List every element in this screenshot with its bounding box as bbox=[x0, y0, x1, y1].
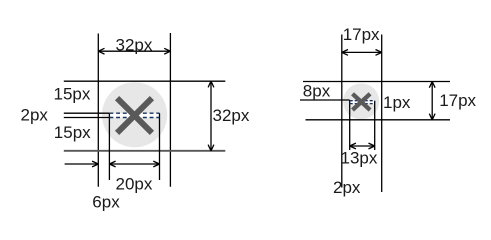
svg-text:32px: 32px bbox=[116, 36, 153, 55]
left box right vertical bbox=[169, 33, 171, 187]
left 32px top dimension arrow bbox=[98, 48, 170, 54]
svg-text:20px: 20px bbox=[116, 175, 153, 194]
left box bottom horizontal bbox=[64, 150, 226, 152]
right box bottom horizontal bbox=[306, 119, 451, 121]
svg-text:32px: 32px bbox=[213, 106, 250, 125]
right 13px bottom dimension arrow bbox=[350, 143, 375, 149]
right icon circle bbox=[343, 83, 379, 119]
right box top horizontal bbox=[303, 81, 450, 83]
svg-text:17px: 17px bbox=[439, 91, 476, 110]
left 6px leader arrow bbox=[65, 161, 99, 167]
right 8px leader line bbox=[300, 99, 350, 101]
svg-text:6px: 6px bbox=[92, 193, 120, 212]
svg-text:2px: 2px bbox=[21, 105, 49, 124]
left box left vertical bbox=[97, 34, 99, 187]
left strip dashed navy lines bbox=[109, 113, 159, 117]
right 17px top dimension arrow bbox=[342, 50, 382, 56]
right box left vertical bbox=[341, 35, 343, 188]
svg-text:1px: 1px bbox=[383, 93, 411, 112]
left strip left vertical extension bbox=[108, 113, 110, 180]
left 20px bottom dimension arrow bbox=[109, 161, 159, 167]
right strip white fill bbox=[350, 101, 375, 104]
right X mark bbox=[353, 94, 371, 110]
svg-text:15px: 15px bbox=[54, 85, 91, 104]
svg-text:8px: 8px bbox=[303, 81, 331, 100]
svg-text:13px: 13px bbox=[341, 148, 378, 167]
right strip left vertical extension bbox=[349, 100, 351, 150]
left icon circle bbox=[102, 82, 167, 147]
svg-text:17px: 17px bbox=[343, 25, 380, 44]
right strip dashed navy lines bbox=[350, 101, 375, 104]
left box top horizontal bbox=[64, 80, 226, 82]
svg-text:15px: 15px bbox=[54, 123, 91, 142]
left 2px leader bottom line bbox=[64, 117, 110, 119]
left strip white fill bbox=[109, 113, 159, 117]
left X mark bbox=[117, 98, 152, 133]
right box right vertical bbox=[381, 35, 383, 193]
svg-text:2px: 2px bbox=[333, 178, 361, 197]
left 32px right dimension arrow bbox=[208, 81, 214, 151]
right strip right vertical extension bbox=[374, 101, 376, 150]
right 17px right dimension arrow bbox=[429, 82, 435, 120]
left strip right vertical extension bbox=[159, 113, 161, 180]
left 2px leader top line bbox=[64, 112, 110, 114]
